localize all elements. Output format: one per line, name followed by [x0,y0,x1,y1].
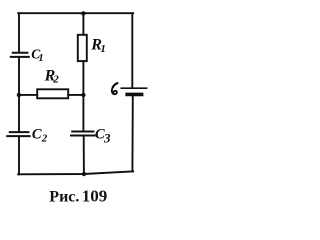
node junction middle [81,93,85,97]
label C1 [31,46,43,64]
wire middle top (to R1) [82,13,84,35]
node junction top [81,11,85,15]
svg-text:1: 1 [38,53,43,64]
label EMF script-E [113,83,118,87]
wire middle lower (C3 to bottom) [83,136,85,174]
node junction bottom [82,172,86,176]
wire middle (R1 to C3) [82,61,84,131]
wire left lower (C2 to bottom) [18,137,20,174]
capacitor C1 [11,53,29,57]
battery E short plate [127,93,141,97]
resistor R1 [78,35,87,61]
svg-text:109: 109 [82,186,108,205]
svg-text:1: 1 [100,43,106,55]
label R2 [44,68,60,86]
svg-text:Рис.: Рис. [49,189,79,206]
wire right lower (battery to bottom) [131,96,133,171]
label C3 [95,127,111,146]
wire left upper (to C1) [18,13,20,52]
label R1 [90,37,106,55]
wire R2 left lead [19,94,37,96]
capacitor C3 [71,132,95,136]
wire right upper (to battery) [131,13,133,87]
svg-text:3: 3 [103,130,111,145]
capacitor C2 [7,132,29,136]
node junction left [17,93,21,97]
svg-text:C: C [32,127,42,143]
wire R2 right lead [68,94,83,96]
wire left middle (C1 to C2) [18,58,20,132]
resistor R2 [37,89,68,98]
svg-text:2: 2 [41,133,48,145]
battery E long plate [121,87,146,89]
wire top [18,12,133,14]
svg-text:2: 2 [52,74,59,86]
label C2 [32,127,48,145]
wire bottom [18,171,133,174]
